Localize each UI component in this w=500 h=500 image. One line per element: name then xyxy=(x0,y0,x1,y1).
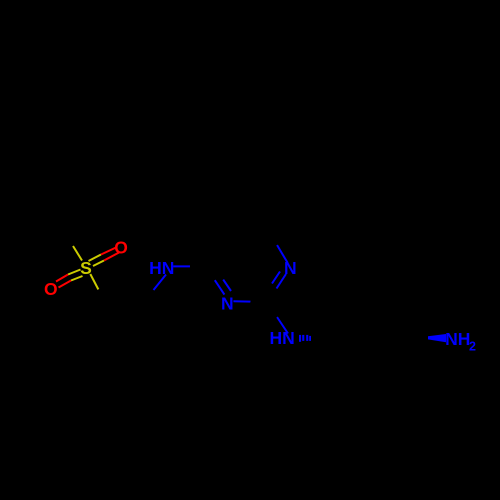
svg-text:NH: NH xyxy=(445,329,470,349)
node: hashed wedge N-C1' (blue dashes) xyxy=(299,335,311,342)
wire: bond HN-CH blue half xyxy=(154,275,167,291)
wire: bond S-C(aryl) black half xyxy=(98,290,104,302)
wire: bond S=O1 line2 yellow half xyxy=(93,261,104,267)
wire: bond S-C(aryl) yellow half xyxy=(90,274,98,290)
wire: bond HN-C4 black half xyxy=(190,265,205,268)
wire: bond C4-C5 xyxy=(205,231,223,267)
wire: bond CH3-S black half xyxy=(64,232,73,246)
wire: bond N3-C2 blue half xyxy=(233,300,250,302)
wire: bond CH-CH3 xyxy=(147,299,153,343)
node: solid wedge C4'-NH2 black tail xyxy=(402,336,428,339)
svg-text:O: O xyxy=(44,279,58,299)
wire: bond S=O2 line2 yellow half xyxy=(71,276,83,281)
wire: top chain bond 2 xyxy=(252,146,257,192)
svg-text:HN: HN xyxy=(149,258,174,278)
svg-text:O: O xyxy=(114,238,128,258)
wire: top chain bond 1 xyxy=(252,192,269,231)
svg-text:2: 2 xyxy=(469,340,476,354)
wire: bond C5-C6 xyxy=(223,230,269,233)
svg-text:N: N xyxy=(221,294,234,314)
wire: bond C4=N3 main black half xyxy=(205,267,215,280)
node: benzene ring (black, invisible on black bg) xyxy=(72,302,144,384)
wire: bond S=O1 line2 red half xyxy=(104,253,119,261)
wire: bond S=O2 line2 red half xyxy=(59,281,72,288)
node: cyclohexane ring (black, invisible on black bg) xyxy=(313,305,402,371)
wire: bond C4=N3 inner black half xyxy=(215,272,223,280)
node: solid wedge C4'-NH2 blue part xyxy=(428,334,446,342)
wire: bond C2=N1 inner black half xyxy=(262,284,272,299)
svg-text:HN: HN xyxy=(270,328,295,348)
wire: bond HN-CH black half xyxy=(147,290,154,299)
wire: bond S=O1 line1 yellow half xyxy=(89,255,102,262)
wire: bond CH3-S yellow half xyxy=(73,246,82,261)
wire: bond S=O1 line1 red half xyxy=(101,248,116,255)
wire: bond S=O2 line1 yellow half xyxy=(68,270,81,275)
wire: bond HN-C4 blue half xyxy=(173,265,190,267)
wire: bond C2=N1 inner blue half xyxy=(272,272,280,284)
wire: bond C2=N1 main blue half xyxy=(277,274,287,289)
wire: bond N1-C6 black half xyxy=(268,231,277,246)
svg-text:N: N xyxy=(284,258,297,278)
wire: bond C2-N(H) black half xyxy=(264,306,277,317)
wire: top chain bond 3 xyxy=(251,101,256,146)
wire: bond C4=N3 inner blue half xyxy=(223,280,231,291)
wire: bond C4=N3 main blue half xyxy=(215,280,225,294)
wire: bond S=O2 line1 red half xyxy=(56,275,68,282)
svg-text:S: S xyxy=(80,258,92,278)
wire: bond N1-C6 blue half xyxy=(277,245,288,263)
wire: bond C2-N(H) blue half xyxy=(277,317,288,334)
wire: bond N3-C2 black half xyxy=(251,302,265,306)
wire: bond CH-C1'' aryl xyxy=(141,299,147,315)
wire: bond C2=N1 main black half xyxy=(264,289,277,307)
